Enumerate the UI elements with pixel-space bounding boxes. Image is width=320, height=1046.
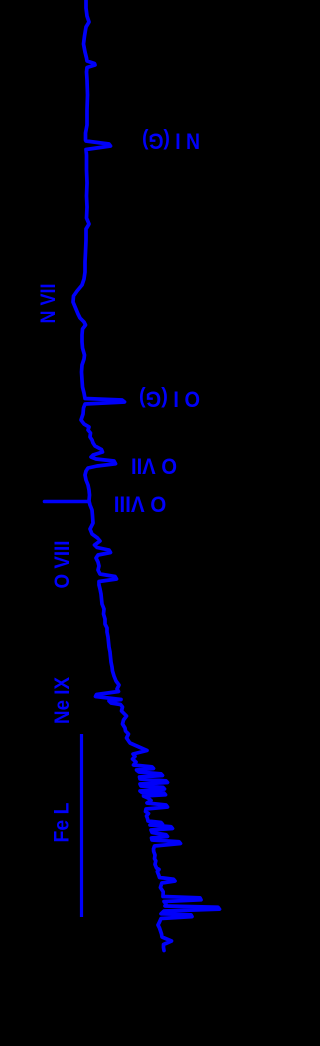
spectrum trace	[73, 0, 220, 951]
svg-text:O VIII: O VIII	[51, 541, 74, 589]
svg-text:N I (G): N I (G)	[142, 129, 200, 154]
svg-text:Fe L: Fe L	[51, 802, 74, 842]
svg-text:O VIII: O VIII	[114, 492, 167, 517]
svg-text:Ne IX: Ne IX	[51, 677, 74, 724]
Fe L bracket line	[80, 734, 83, 917]
svg-text:N VII: N VII	[37, 284, 60, 324]
svg-text:O I (G): O I (G)	[139, 387, 200, 412]
svg-text:O VII: O VII	[131, 454, 177, 479]
O VIII marker line	[45, 500, 89, 504]
